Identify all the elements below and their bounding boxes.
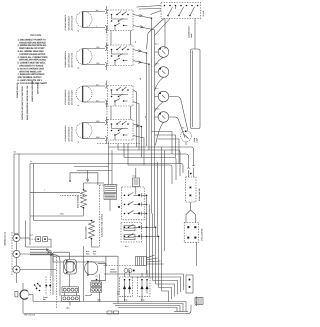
capacitor dashed xyxy=(45,277,51,296)
svg-text:COPPER UNLESS NOTED: COPPER UNLESS NOTED xyxy=(19,53,46,56)
pilot lamp PL3 xyxy=(155,91,169,102)
svg-text:BAKE 2600W BROIL 3000W CONV 12: BAKE 2600W BROIL 3000W CONV 120 xyxy=(26,85,29,120)
svg-text:LT REAR SURFACE U: LT REAR SURFACE U xyxy=(64,125,67,142)
svg-text:L1: L1 xyxy=(134,41,137,43)
broil dashed link xyxy=(60,194,84,196)
svg-text:5L: 5L xyxy=(78,67,80,70)
svg-text:SWITCHES IN OFF POSIT: SWITCHES IN OFF POSIT xyxy=(19,47,45,50)
thermal fuse box A xyxy=(120,277,133,296)
surface element SU1 xyxy=(76,6,107,33)
lower connector block xyxy=(186,275,193,293)
right vertical drop wires xyxy=(147,147,165,291)
wire to clock xyxy=(151,11,162,15)
oven lamp switch box xyxy=(184,223,199,243)
bottom left box corner xyxy=(26,221,53,248)
fuse wires xyxy=(29,239,51,246)
relay contact box lower xyxy=(121,223,142,243)
surface element SU2 xyxy=(76,43,107,70)
svg-text:BAKE ELEMENT: BAKE ELEMENT xyxy=(77,195,80,208)
svg-text:CLOCK: CLOCK xyxy=(202,10,205,16)
notes text block xyxy=(18,38,48,85)
nested corner wires xyxy=(104,274,184,302)
svg-text:BROIL ELEMENT: BROIL ELEMENT xyxy=(85,225,88,239)
infinite switch SW4 xyxy=(108,120,134,141)
svg-text:UNIT 1500W 6 INCH: UNIT 1500W 6 INCH xyxy=(67,52,70,67)
relay coil K1 xyxy=(104,185,117,193)
terminal L2 xyxy=(13,266,20,273)
mid separator wire xyxy=(83,246,85,301)
svg-text:BEFORE ANY REPLACING: BEFORE ANY REPLACING xyxy=(19,59,46,62)
svg-text:240V HOT SF LIGHT: 240V HOT SF LIGHT xyxy=(71,126,74,142)
pilot lamp PL4 xyxy=(155,112,169,123)
svg-text:FAN MOTOR: FAN MOTOR xyxy=(105,256,108,266)
inter-switch connectors xyxy=(111,31,131,120)
oven control board outline xyxy=(100,185,119,247)
plug interconnects xyxy=(65,293,77,306)
infinite switch SW3 xyxy=(108,86,134,107)
svg-text:RT FRONT SURFACE: RT FRONT SURFACE xyxy=(64,14,67,31)
svg-text:4. CHECK ALL CONNECTORS: 4. CHECK ALL CONNECTORS xyxy=(18,56,48,59)
pilot lamp PL1 xyxy=(155,47,169,58)
convection motor xyxy=(64,260,77,275)
pilot lamp wires xyxy=(155,57,188,145)
svg-text:TERMINAL BLOCK: TERMINAL BLOCK xyxy=(4,231,7,246)
thermal fuse stubs xyxy=(125,270,148,302)
terminal N xyxy=(13,250,20,257)
contact row 4 xyxy=(124,224,148,229)
contact row 3 xyxy=(124,211,148,216)
svg-text:DOOR LAMP SW: DOOR LAMP SW xyxy=(198,188,201,201)
svg-text:240V NOMINAL SUPPLY: 240V NOMINAL SUPPLY xyxy=(18,76,43,79)
element terminal ids xyxy=(78,30,80,144)
svg-text:2. WIRING SHOWN WITH ALL: 2. WIRING SHOWN WITH ALL xyxy=(18,44,48,47)
switch junction wires xyxy=(186,165,196,222)
svg-text:WITH THE PANEL OFF: WITH THE PANEL OFF xyxy=(19,70,42,73)
svg-text:L1: L1 xyxy=(144,116,147,118)
broil element xyxy=(89,220,95,240)
svg-text:UNIT 2350W 8 INCH: UNIT 2350W 8 INCH xyxy=(67,90,70,105)
svg-text:3. ALL WIRING 18GA AWG: 3. ALL WIRING 18GA AWG xyxy=(18,50,44,53)
svg-text:240V HOT SF LIGHT: 240V HOT SF LIGHT xyxy=(71,89,74,105)
clock timer dashed box xyxy=(161,3,201,19)
svg-text:SENSOR: SENSOR xyxy=(110,270,118,273)
relay coil K2 xyxy=(104,194,117,200)
SU3 label xyxy=(64,89,73,105)
fan motor loop xyxy=(91,263,105,280)
svg-text:6. DO NOT OPERATE UNIT: 6. DO NOT OPERATE UNIT xyxy=(18,67,45,70)
terminal L1 xyxy=(13,234,20,241)
notes rotated columns xyxy=(16,81,40,120)
surface element SU4 xyxy=(76,117,107,144)
motor plug row 2 xyxy=(91,288,102,293)
pilot lamp PL2 xyxy=(155,67,169,78)
SU2 label xyxy=(64,50,73,67)
motor plug row 1 xyxy=(91,282,102,287)
relay contact box upper xyxy=(122,187,145,220)
fan motor labels xyxy=(86,250,97,255)
infinite switch SW1 xyxy=(108,10,134,31)
surface element SU3 xyxy=(76,81,107,108)
svg-text:YEL: YEL xyxy=(93,252,96,255)
lamp feed bends xyxy=(152,132,180,164)
fuse box F1 xyxy=(36,237,41,242)
junction dot xyxy=(118,206,120,208)
svg-text:RT REAR SURFACE U: RT REAR SURFACE U xyxy=(64,50,67,67)
lock motor wires xyxy=(23,283,33,313)
contact row 1 xyxy=(124,192,148,197)
board feed wires xyxy=(109,147,136,211)
svg-text:8. LAMP CIRCUITS 120 V: 8. LAMP CIRCUITS 120 V xyxy=(18,79,43,82)
small box DLB xyxy=(133,178,140,187)
SU4 label xyxy=(64,125,73,142)
svg-text:240V HOT SF LIGHT: 240V HOT SF LIGHT xyxy=(71,15,74,31)
bottom right comb xyxy=(195,298,203,305)
bus lines xyxy=(14,142,194,185)
svg-text:UNIT 1500W 6 INCH: UNIT 1500W 6 INCH xyxy=(67,126,70,141)
element feed daisy chains xyxy=(106,27,108,124)
middle wires xyxy=(30,167,112,248)
oven fan motor xyxy=(85,261,98,276)
svg-text:5L: 5L xyxy=(78,30,80,33)
svg-text:PNP ON BLK: PNP ON BLK xyxy=(24,314,36,317)
contact row 5 xyxy=(124,233,148,238)
infinite switch SW2 xyxy=(108,45,134,66)
svg-text:ELECTRONIC OVEN CONTROL: ELECTRONIC OVEN CONTROL xyxy=(101,214,104,237)
oven sensor resistor xyxy=(124,269,135,273)
junction chevrons xyxy=(30,249,69,296)
svg-text:LT FRONT SURFACE: LT FRONT SURFACE xyxy=(64,89,67,105)
left vertical feeders xyxy=(14,154,34,245)
plug connector row 2 xyxy=(62,296,80,302)
svg-text:SURFACE UNIT WATTS AT 240V RAT: SURFACE UNIT WATTS AT 240V RATE xyxy=(21,85,24,120)
row extensions xyxy=(147,227,160,238)
svg-text:L2: L2 xyxy=(139,78,142,80)
contact squares xyxy=(138,194,140,237)
plug connector row 1 xyxy=(62,287,79,293)
svg-text:TNT IS NTD: TNT IS NTD xyxy=(30,34,42,37)
SU1 label xyxy=(64,14,73,31)
svg-text:5L: 5L xyxy=(78,104,80,107)
sensor dashed feed xyxy=(104,265,136,267)
motor plug leads xyxy=(85,274,100,302)
contact row 2 xyxy=(124,201,148,206)
fluorescent lamp box xyxy=(191,49,201,129)
comb fan wires xyxy=(147,255,164,264)
svg-text:240V HOT SF LIGHT: 240V HOT SF LIGHT xyxy=(71,52,74,68)
svg-text:5. CABINET MUST BE WELL: 5. CABINET MUST BE WELL xyxy=(18,62,47,65)
svg-text:RANGE BEFORE SERVICE: RANGE BEFORE SERVICE xyxy=(19,41,46,44)
terminal block dashed line xyxy=(11,232,13,275)
convection motor leads xyxy=(55,252,69,309)
svg-text:POWER 240V AC: POWER 240V AC xyxy=(16,82,19,98)
svg-text:SER RATING: SER RATING xyxy=(37,82,40,94)
wire bundle right of switches xyxy=(133,6,195,166)
sensor connector comb xyxy=(136,257,147,266)
svg-text:W: W xyxy=(30,160,32,163)
svg-text:OVEN LAMP SW: OVEN LAMP SW xyxy=(201,228,204,241)
svg-text:5L: 5L xyxy=(78,141,80,144)
door lock motor xyxy=(15,290,29,299)
terminal wires xyxy=(14,233,56,283)
door lamp switch box xyxy=(186,177,197,202)
clock exit diagonals xyxy=(147,19,165,50)
svg-text:LAMPS 40W OVEN 25W: LAMPS 40W OVEN 25W xyxy=(31,81,34,102)
fuse box F2 xyxy=(43,237,48,242)
bottom bus lines xyxy=(23,256,191,314)
svg-text:1. DISCONNECT POWER TO: 1. DISCONNECT POWER TO xyxy=(18,38,47,41)
oven lamp xyxy=(181,131,192,146)
svg-text:7. SURFACE UNITS RATED: 7. SURFACE UNITS RATED xyxy=(18,73,45,76)
thermal fuse box B xyxy=(137,277,150,296)
lamp sw exit wire xyxy=(196,242,198,266)
terminal cluster xyxy=(34,283,41,292)
bake element xyxy=(81,189,87,209)
svg-text:GROUNDED TO RANGE: GROUNDED TO RANGE xyxy=(19,65,44,68)
svg-text:UNIT 2350W 8 INCH: UNIT 2350W 8 INCH xyxy=(67,15,70,30)
